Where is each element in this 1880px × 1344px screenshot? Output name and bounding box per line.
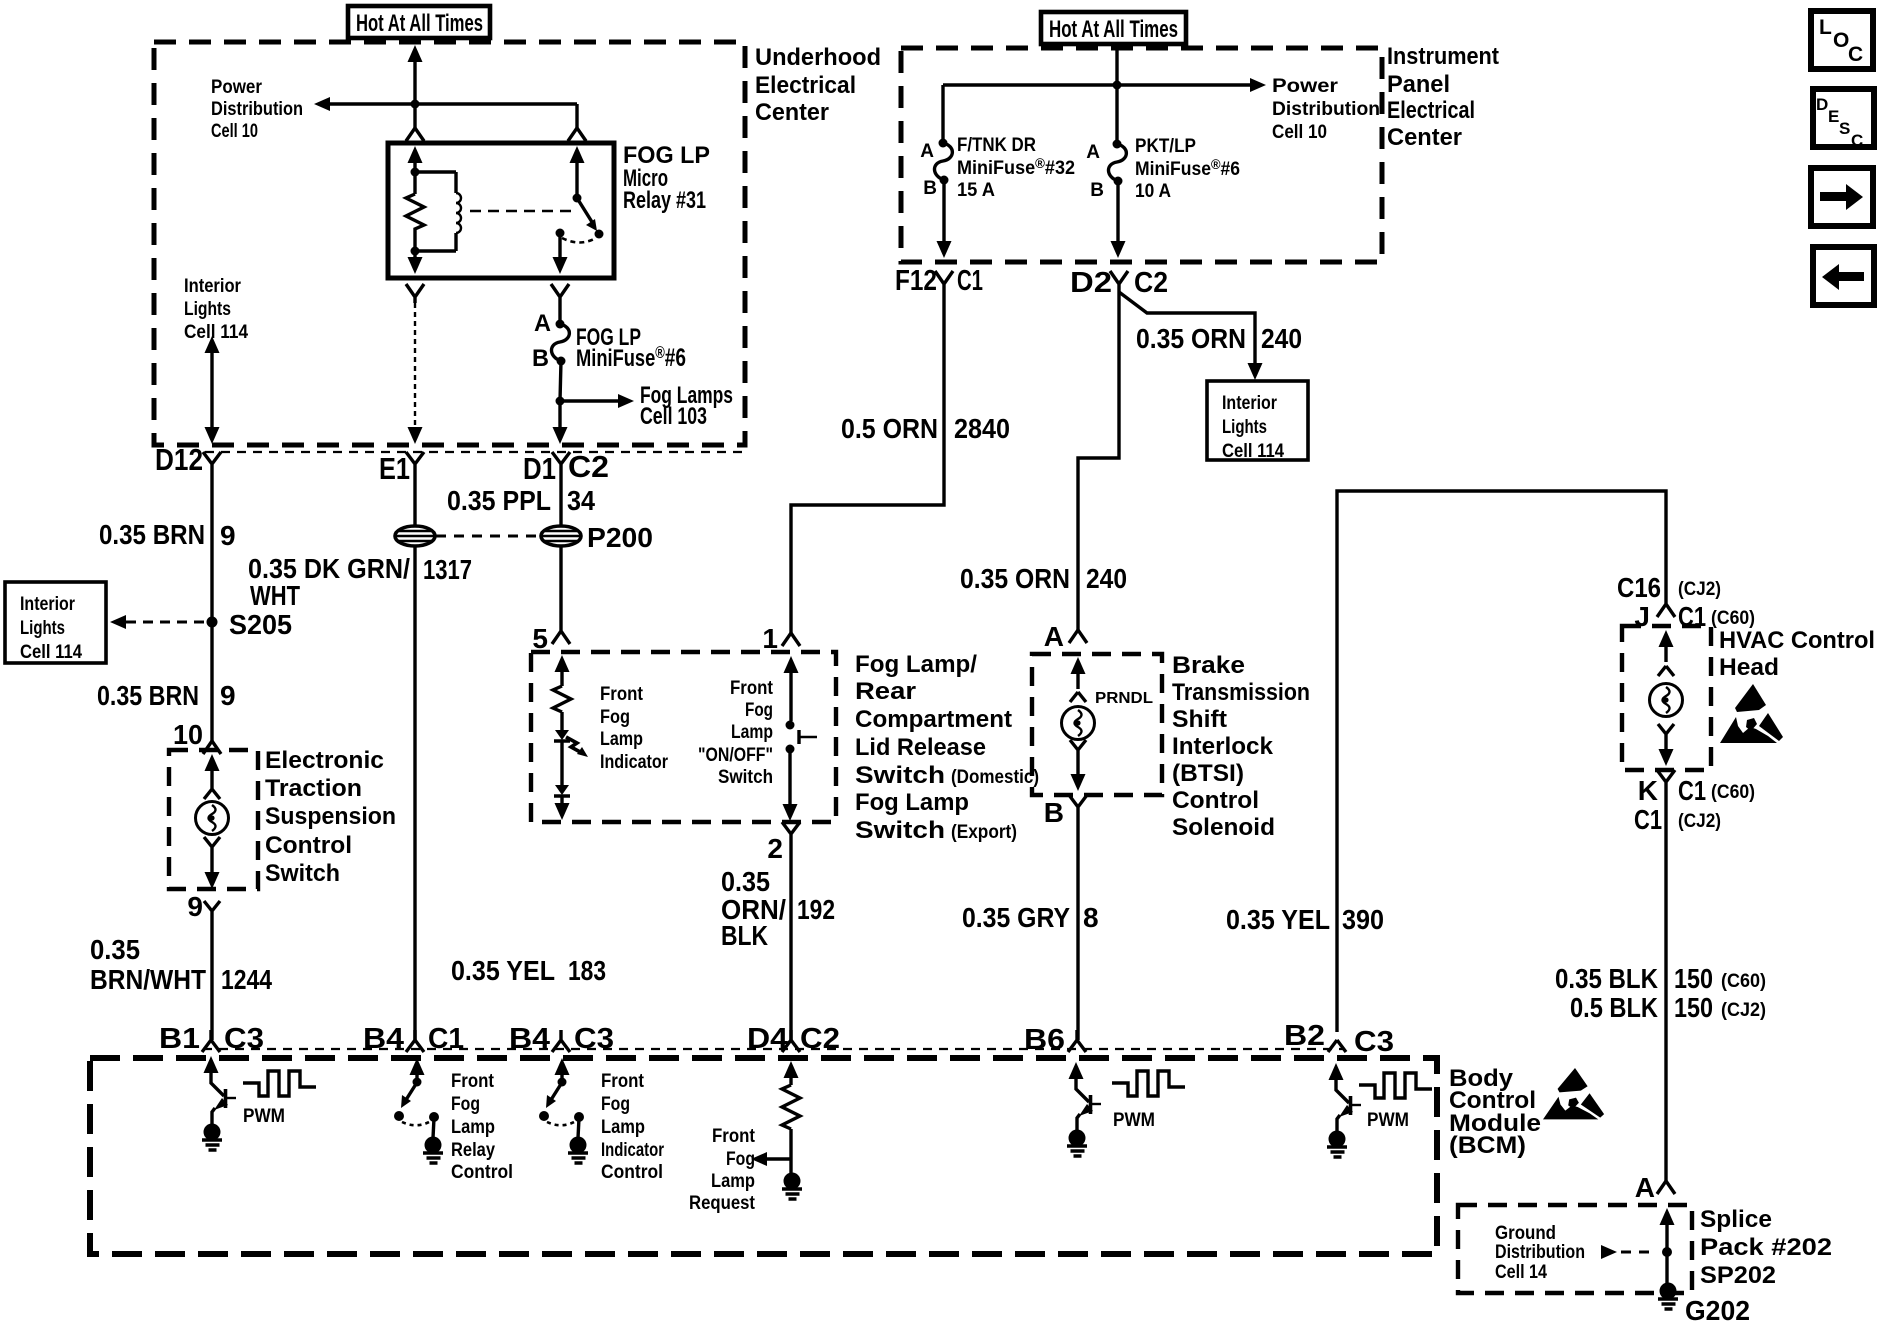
svg-text:PWM: PWM [1113,1110,1155,1131]
svg-text:(Domestic): (Domestic) [951,767,1039,788]
svg-text:Underhood: Underhood [755,44,881,71]
svg-text:Interlock: Interlock [1172,733,1274,760]
svg-text:Distribution: Distribution [1495,1242,1585,1263]
svg-text:Shift: Shift [1172,706,1227,733]
svg-text:0.35 BLK: 0.35 BLK [1555,963,1658,994]
svg-text:Indicator: Indicator [601,1140,664,1161]
svg-text:Traction: Traction [265,775,362,802]
svg-text:1: 1 [762,623,778,654]
svg-text:8: 8 [1083,902,1099,933]
svg-text:Center: Center [1387,124,1462,151]
svg-text:(BCM): (BCM) [1449,1132,1526,1159]
svg-text:Splice: Splice [1700,1206,1772,1233]
svg-text:C2: C2 [1134,267,1168,299]
svg-text:Front: Front [730,678,774,699]
svg-text:0.35: 0.35 [721,866,770,897]
svg-text:Control: Control [265,832,352,859]
svg-text:Solenoid: Solenoid [1172,814,1275,841]
svg-text:Power: Power [211,77,263,98]
svg-text:0.35: 0.35 [90,934,140,965]
svg-text:D1: D1 [523,451,556,486]
svg-text:Control: Control [1172,787,1259,814]
svg-text:F/TNK DR: F/TNK DR [957,135,1036,156]
svg-text:Lamp: Lamp [451,1117,495,1138]
svg-text:Front: Front [712,1126,756,1147]
svg-text:B: B [923,178,937,199]
svg-text:Distribution: Distribution [1272,99,1380,120]
svg-text:2840: 2840 [954,413,1010,444]
svg-text:MiniFuse®#6: MiniFuse®#6 [576,343,686,372]
svg-text:(C60): (C60) [1721,971,1766,992]
svg-text:0.5 BLK: 0.5 BLK [1570,992,1658,1023]
svg-text:C1: C1 [428,1023,464,1055]
svg-text:Control: Control [451,1162,513,1183]
svg-text:Electrical: Electrical [755,72,856,99]
svg-text:0.35 ORN: 0.35 ORN [960,563,1070,594]
svg-text:C: C [1851,131,1863,150]
svg-text:HVAC Control: HVAC Control [1719,627,1875,654]
svg-text:192: 192 [797,894,835,925]
svg-text:Fog: Fog [601,1094,630,1115]
svg-text:Fog Lamp/: Fog Lamp/ [855,651,977,678]
svg-text:0.35 GRY: 0.35 GRY [962,902,1070,933]
svg-text:Lights: Lights [20,618,65,639]
svg-text:Fog Lamp: Fog Lamp [855,789,969,816]
svg-text:B: B [532,345,549,372]
svg-text:(C60): (C60) [1711,782,1755,803]
svg-text:WHT: WHT [250,580,300,611]
svg-text:Cell 10: Cell 10 [1272,122,1327,143]
svg-text:0.35 BRN: 0.35 BRN [97,680,199,711]
svg-text:(BTSI): (BTSI) [1172,760,1244,787]
svg-text:C: C [1848,43,1863,66]
svg-text:Suspension: Suspension [265,803,396,830]
svg-text:PWM: PWM [1367,1110,1409,1131]
svg-text:D12: D12 [155,442,203,477]
svg-text:10 A: 10 A [1135,181,1171,202]
svg-text:Pack #202: Pack #202 [1700,1234,1832,1261]
svg-text:Cell 114: Cell 114 [1222,441,1284,462]
svg-text:Lamp: Lamp [601,1117,645,1138]
svg-text:D2: D2 [1070,267,1112,299]
svg-text:240: 240 [1086,563,1127,594]
svg-text:A: A [920,141,934,162]
svg-text:F12: F12 [895,265,937,297]
svg-text:Rear: Rear [855,678,916,705]
svg-text:E1: E1 [379,451,410,486]
svg-text:K: K [1638,775,1658,806]
svg-text:Relay #31: Relay #31 [623,187,706,214]
svg-text:C2: C2 [800,1023,840,1055]
svg-text:0.5 ORN: 0.5 ORN [841,413,938,444]
svg-text:PKT/LP: PKT/LP [1135,136,1196,157]
svg-text:34: 34 [567,485,595,516]
svg-text:C3: C3 [574,1023,614,1055]
svg-text:0.35 PPL: 0.35 PPL [447,485,551,516]
svg-text:L: L [1819,16,1832,39]
svg-text:SP202: SP202 [1700,1262,1776,1289]
svg-text:9: 9 [220,680,236,711]
svg-text:Cell 114: Cell 114 [20,642,82,663]
svg-text:Lights: Lights [1222,417,1267,438]
svg-text:Fog: Fog [451,1094,480,1115]
svg-text:2: 2 [767,833,783,864]
svg-text:Hot At All Times: Hot At All Times [356,10,483,37]
svg-text:Brake: Brake [1172,652,1245,679]
svg-text:0.35 YEL: 0.35 YEL [451,955,555,986]
svg-text:Cell 14: Cell 14 [1495,1262,1547,1283]
svg-text:183: 183 [568,955,606,986]
svg-text:Front: Front [451,1071,495,1092]
svg-text:Transmission: Transmission [1172,679,1310,706]
svg-text:PRNDL: PRNDL [1095,690,1153,707]
svg-text:Lid Release: Lid Release [855,734,986,761]
svg-text:0.35 YEL: 0.35 YEL [1226,904,1330,935]
svg-text:Switch: Switch [855,817,945,844]
svg-text:Fog: Fog [726,1149,755,1170]
svg-text:BRN/WHT: BRN/WHT [90,964,206,995]
svg-text:Lamp: Lamp [731,722,773,743]
svg-text:MiniFuse®#6: MiniFuse®#6 [1135,156,1240,180]
svg-text:A: A [1635,1172,1655,1203]
svg-text:C3: C3 [224,1023,264,1055]
svg-text:Control: Control [601,1162,663,1183]
svg-text:Electronic: Electronic [265,747,384,774]
svg-text:A: A [1086,142,1100,163]
svg-text:BLK: BLK [721,920,768,951]
svg-text:B1: B1 [159,1023,200,1055]
svg-text:150: 150 [1674,963,1713,994]
svg-text:150: 150 [1674,992,1713,1023]
svg-text:C16: C16 [1617,572,1661,603]
svg-text:Center: Center [755,99,829,126]
svg-text:Switch: Switch [855,762,945,789]
svg-text:B6: B6 [1024,1024,1065,1056]
svg-text:10: 10 [173,719,203,750]
svg-text:Lamp: Lamp [600,729,643,750]
svg-text:15 A: 15 A [957,180,995,201]
svg-text:Cell 114: Cell 114 [184,322,248,343]
svg-text:Distribution: Distribution [211,99,303,120]
svg-text:Switch: Switch [265,860,340,887]
svg-text:S205: S205 [229,609,292,640]
svg-text:(CJ2): (CJ2) [1678,811,1721,832]
svg-text:390: 390 [1342,904,1384,935]
svg-text:9: 9 [187,891,203,922]
svg-text:(CJ2): (CJ2) [1678,579,1721,600]
svg-text:(Export): (Export) [951,822,1017,843]
svg-text:B: B [1044,797,1064,828]
svg-text:S: S [1839,119,1850,138]
svg-text:5: 5 [532,623,548,654]
svg-text:Instrument: Instrument [1387,43,1499,70]
svg-text:A: A [1044,621,1064,652]
svg-text:Panel: Panel [1387,71,1450,98]
svg-text:Relay: Relay [451,1140,495,1161]
svg-text:Front: Front [600,684,644,705]
svg-text:E: E [1828,107,1839,126]
svg-text:(CJ2): (CJ2) [1721,1000,1766,1021]
svg-text:Lights: Lights [184,299,231,320]
svg-text:Electrical: Electrical [1387,97,1475,124]
svg-text:(C60): (C60) [1711,608,1755,629]
svg-text:Hot At All Times: Hot At All Times [1049,16,1178,43]
svg-text:B2: B2 [1284,1020,1325,1052]
svg-text:Compartment: Compartment [855,706,1012,733]
svg-text:Ground: Ground [1495,1223,1556,1244]
svg-text:C1: C1 [1634,804,1662,835]
svg-text:Switch: Switch [718,767,773,788]
svg-text:Interior: Interior [20,594,76,615]
svg-text:B4: B4 [363,1023,404,1055]
svg-text:Interior: Interior [184,276,242,297]
svg-text:Indicator: Indicator [600,752,669,773]
svg-text:1317: 1317 [423,554,472,585]
svg-text:C3: C3 [1354,1026,1394,1058]
svg-text:Request: Request [689,1193,756,1214]
svg-text:Lamp: Lamp [711,1171,755,1192]
svg-text:MiniFuse®#32: MiniFuse®#32 [957,155,1075,179]
svg-text:Power: Power [1272,76,1339,97]
svg-text:A: A [534,310,551,337]
svg-text:0.35 BRN: 0.35 BRN [99,519,205,550]
svg-text:G202: G202 [1685,1295,1750,1326]
svg-text:0.35 ORN: 0.35 ORN [1136,323,1246,354]
svg-text:"ON/OFF": "ON/OFF" [698,745,773,766]
svg-text:C1: C1 [1678,775,1706,806]
svg-text:Fog: Fog [745,700,773,721]
svg-text:P200: P200 [587,522,653,553]
svg-text:C2: C2 [568,449,609,484]
svg-text:D: D [1816,95,1828,114]
svg-text:B: B [1090,180,1104,201]
svg-text:Cell 103: Cell 103 [640,403,707,430]
svg-text:Fog: Fog [600,707,630,728]
svg-text:O: O [1833,29,1849,52]
svg-text:C1: C1 [957,265,983,297]
svg-text:Cell 10: Cell 10 [211,121,258,142]
svg-text:Front: Front [601,1071,645,1092]
svg-text:240: 240 [1261,323,1302,354]
svg-text:1244: 1244 [221,964,272,995]
svg-text:9: 9 [220,520,236,551]
svg-text:PWM: PWM [243,1106,285,1127]
svg-text:Head: Head [1719,654,1779,681]
svg-text:Interior: Interior [1222,393,1278,414]
svg-text:B4: B4 [509,1023,550,1055]
